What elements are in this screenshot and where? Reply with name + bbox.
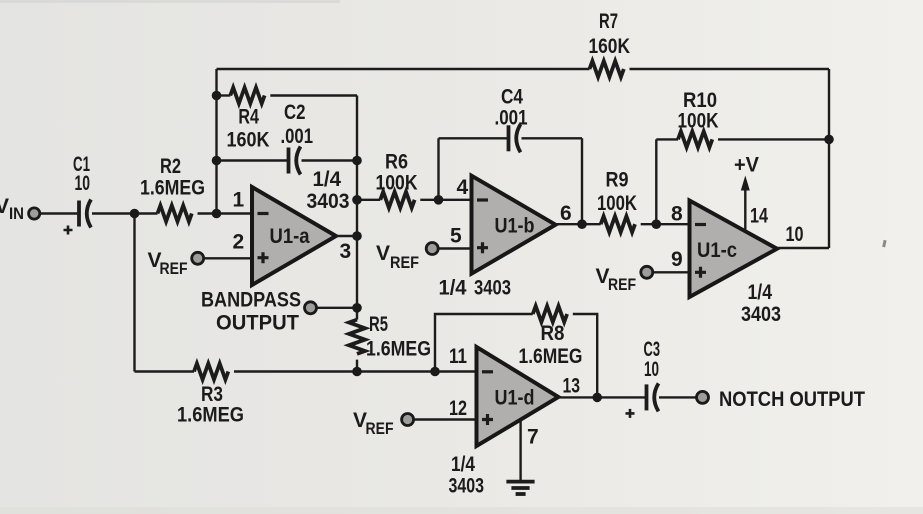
plus sign C3 (626, 409, 635, 418)
label VREF d (353, 409, 394, 438)
svg-text:4: 4 (457, 176, 469, 199)
svg-text:7: 7 (527, 426, 539, 449)
pin 5 (450, 225, 462, 248)
terminal VREF c (641, 266, 653, 278)
wire VREF d to pin12 (414, 418, 477, 420)
wire R10 row right (718, 138, 829, 140)
pin 6 (560, 202, 572, 225)
svg-text:IN: IN (9, 204, 24, 223)
svg-text:1/4: 1/4 (439, 277, 467, 300)
svg-text:160K: 160K (227, 129, 270, 152)
wire VIN to C1 (41, 212, 78, 214)
svg-text:100K: 100K (678, 110, 719, 133)
pin 8 (671, 203, 683, 226)
svg-text:160K: 160K (589, 35, 631, 58)
wire C1 to R2 (92, 212, 158, 214)
wire VREF b to pin5 (439, 247, 472, 249)
label +V (734, 154, 759, 177)
svg-text:1.6MEG: 1.6MEG (519, 345, 583, 368)
op-amp U1-c (690, 201, 778, 298)
resistor R7 (590, 61, 624, 77)
wire bandpass (317, 307, 358, 309)
pin 1 (233, 189, 245, 212)
svg-text:1.6MEG: 1.6MEG (177, 404, 244, 427)
node U1-b output (577, 219, 587, 229)
label U1-d (495, 387, 535, 410)
svg-text:2: 2 (233, 231, 245, 254)
power +V arrow (741, 176, 750, 231)
pin 10 (786, 223, 804, 246)
capacitor C4 (509, 124, 521, 152)
wire R10 row left (656, 138, 678, 140)
pin 3 (340, 240, 352, 263)
node VIN terminal (29, 208, 40, 219)
wire node A down to bottom rail (133, 214, 135, 372)
svg-text:R3: R3 (201, 383, 223, 406)
wire U1-a apex to column (336, 235, 357, 237)
node C2 left (212, 156, 222, 166)
node C2 right (352, 156, 362, 166)
svg-text:R2: R2 (160, 155, 181, 178)
svg-text:OUTPUT: OUTPUT (216, 312, 299, 335)
svg-text:U1-a: U1-a (270, 225, 310, 248)
capacitor C3 (647, 383, 659, 411)
op-amp U1-d (477, 347, 559, 446)
resistor R9 (601, 216, 635, 232)
resistor R10 (678, 131, 712, 147)
svg-text:100K: 100K (376, 172, 418, 195)
plus U1-c (695, 267, 706, 278)
svg-text:U1-d: U1-d (495, 387, 535, 410)
node pin8 junction (652, 219, 662, 229)
wire R9 to U1-c (641, 223, 690, 225)
svg-text:5: 5 (450, 225, 462, 248)
svg-text:NOTCH OUTPUT: NOTCH OUTPUT (719, 388, 865, 411)
node U1-d output (592, 393, 602, 403)
plus sign C1 (64, 226, 73, 235)
svg-text:8: 8 (671, 203, 683, 226)
label BANDPASS OUTPUT (201, 289, 301, 335)
node R10 right junction (824, 135, 834, 145)
stray mark (882, 240, 886, 247)
svg-text:9: 9 (671, 248, 683, 271)
wire R8 loop (435, 314, 597, 397)
svg-text:3403: 3403 (449, 475, 485, 498)
label R3 (177, 383, 244, 427)
wire C3 to notch terminal (659, 396, 697, 398)
svg-text:1/4: 1/4 (451, 453, 475, 476)
terminal VREF a (192, 252, 204, 264)
svg-text:REF: REF (608, 275, 636, 294)
label C1 (73, 153, 90, 195)
wire vertical C feedback column (356, 96, 358, 372)
label U1-c (697, 239, 737, 262)
svg-text:R5: R5 (369, 313, 388, 336)
svg-text:V: V (376, 242, 390, 265)
svg-text:10: 10 (786, 223, 804, 246)
node R4 left (212, 91, 222, 101)
label R4 (227, 106, 270, 152)
ground (506, 482, 534, 494)
svg-text:BANDPASS: BANDPASS (201, 289, 301, 312)
svg-text:1.6MEG: 1.6MEG (366, 338, 431, 361)
wire top rail down to U1-c output (828, 69, 830, 248)
svg-text:3403: 3403 (741, 303, 781, 326)
svg-text:10: 10 (644, 358, 659, 381)
svg-text:3403: 3403 (474, 277, 511, 300)
node bandpass junction (352, 303, 362, 313)
wire C2 row left (217, 159, 288, 161)
label VREF a (148, 249, 188, 278)
pin 14 (750, 205, 768, 228)
label 1/4 3403 U1-d (449, 453, 485, 498)
label VREF b (376, 242, 419, 272)
wire VREF c to pin9 (653, 271, 690, 273)
label U1-a (270, 225, 310, 248)
svg-text:R9: R9 (606, 169, 629, 192)
svg-text:1/4: 1/4 (313, 168, 342, 191)
svg-text:C4: C4 (501, 85, 523, 108)
svg-text:6: 6 (560, 202, 572, 225)
minus U1-a (258, 212, 269, 215)
wire VREF a to pin2 (204, 257, 252, 259)
label 1/4 3403 U1-a (307, 168, 350, 213)
capacitor C1 (79, 200, 91, 228)
wire C4 row right (522, 137, 583, 139)
wire pin7 to ground (519, 420, 521, 480)
svg-text:R7: R7 (599, 10, 618, 33)
svg-text:C2: C2 (284, 101, 306, 124)
wire top rail right (630, 68, 830, 70)
resistor R4 (230, 88, 264, 104)
wire C4 down to U1-b output (581, 138, 583, 224)
svg-text:11: 11 (449, 345, 467, 368)
svg-text:R6: R6 (385, 151, 408, 174)
svg-text:3403: 3403 (307, 190, 350, 213)
label R6 (376, 151, 418, 195)
resistor R5 (349, 320, 365, 354)
label R5 (366, 313, 431, 361)
svg-text:.001: .001 (281, 125, 314, 148)
resistor R6 (380, 192, 414, 208)
wire R4 row right (270, 94, 357, 96)
wire U1-b output (556, 223, 601, 225)
label C4 (495, 85, 528, 129)
svg-text:R4: R4 (238, 106, 259, 129)
plus U1-a (258, 252, 269, 263)
wire node B up to top rail (215, 69, 217, 214)
wire R2 to U1-a (198, 212, 252, 214)
pin 7 (527, 426, 539, 449)
svg-text:REF: REF (390, 253, 419, 272)
svg-text:10: 10 (75, 172, 91, 195)
label R10 (678, 89, 719, 133)
svg-text:14: 14 (750, 205, 768, 228)
wire U1-c output (777, 247, 829, 249)
terminal VREF b (426, 243, 438, 255)
pin 13 (563, 375, 581, 398)
wire C4 row left (439, 137, 508, 139)
svg-text:.001: .001 (495, 106, 528, 129)
pin 12 (449, 397, 467, 420)
node A junction (130, 209, 140, 219)
op-amp U1-a (252, 187, 336, 285)
resistor R8 (533, 306, 567, 322)
wire bottom rail right (234, 370, 477, 372)
minus U1-c (695, 223, 706, 226)
wire top rail left (217, 68, 590, 70)
node U1-a output upper (352, 195, 362, 205)
wire C2 row right (302, 159, 358, 161)
svg-text:+V: +V (734, 154, 759, 177)
wire pin4 node up to C4 (437, 138, 439, 200)
label R7 (589, 10, 631, 58)
wire R4 row left (217, 94, 231, 96)
node U1-a apex (352, 231, 362, 241)
svg-text:R8: R8 (541, 322, 565, 345)
node pin11 junction (430, 367, 440, 377)
pin 11 (449, 345, 467, 368)
label V_IN (0, 195, 24, 223)
capacitor C2 (289, 147, 301, 175)
label R9 (597, 169, 637, 215)
label 1/4 3403 U1-b (439, 277, 512, 300)
svg-text:1.6MEG: 1.6MEG (140, 177, 205, 200)
plus U1-d (482, 414, 493, 425)
wire R6 to U1-b (420, 199, 471, 201)
node pin4 junction (434, 195, 444, 205)
svg-text:REF: REF (160, 259, 188, 278)
label 1/4 3403 U1-c (741, 281, 781, 326)
terminal BANDPASS (305, 302, 317, 314)
svg-text:1/4: 1/4 (748, 281, 773, 304)
svg-text:3: 3 (340, 240, 352, 263)
pin 4 (457, 176, 469, 199)
label VREF c (596, 265, 637, 294)
op-amp U1-b (472, 176, 556, 274)
wire R6 row left (357, 199, 380, 201)
svg-text:V: V (0, 195, 9, 218)
svg-text:12: 12 (449, 397, 467, 420)
node B junction (212, 209, 222, 219)
svg-text:1: 1 (233, 189, 245, 212)
label C3 (644, 338, 661, 381)
svg-text:100K: 100K (597, 192, 637, 215)
minus U1-d (482, 370, 493, 373)
svg-text:U1-c: U1-c (697, 239, 737, 262)
svg-text:REF: REF (366, 419, 394, 438)
pin 9 (671, 248, 683, 271)
terminal NOTCH OUTPUT (697, 391, 709, 403)
resistor R3 (194, 364, 228, 380)
wire pin8 node up to R10 (655, 139, 657, 224)
plus U1-b (477, 242, 488, 253)
label C2 (281, 101, 314, 148)
wire U1-d output (558, 396, 645, 398)
label U1-b (495, 215, 535, 238)
pin 2 (233, 231, 245, 254)
label R8 (519, 322, 583, 368)
svg-text:13: 13 (563, 375, 581, 398)
label NOTCH OUTPUT (719, 388, 865, 411)
svg-text:U1-b: U1-b (495, 215, 535, 238)
resistor R2 (158, 206, 192, 222)
minus U1-b (477, 198, 488, 201)
node R5 bottom (352, 367, 362, 377)
label R2 (140, 155, 205, 200)
wire bottom rail left (135, 370, 195, 372)
terminal VREF d (402, 414, 414, 426)
